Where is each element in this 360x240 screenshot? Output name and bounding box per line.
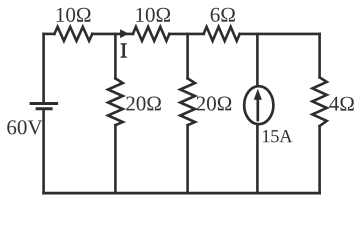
wire left vertical lower (battery - to bottom rail) xyxy=(42,110,45,193)
resistor R1 10ohm (top left) xyxy=(54,27,92,41)
wire between R1 and R2 (carries current arrow) xyxy=(92,33,133,36)
label 60V battery xyxy=(7,120,42,134)
current source I1 ellipse xyxy=(244,86,273,124)
battery V1 long plate (+) xyxy=(30,102,58,105)
wire bottom rail xyxy=(44,192,320,195)
label 10ohm R2 xyxy=(136,8,170,22)
current source arrow head xyxy=(254,89,262,100)
label 15A source xyxy=(263,130,292,142)
wire top-left segment xyxy=(44,33,55,36)
label current I xyxy=(121,44,126,58)
wire source branch top stub xyxy=(256,34,259,86)
label 10ohm R1 xyxy=(57,8,91,22)
resistor R3 6ohm (top right) xyxy=(204,27,240,41)
wire branch2 top stub xyxy=(186,34,189,79)
wire branch1 top stub xyxy=(114,34,117,79)
current arrow head on top wire (label I) xyxy=(120,29,129,38)
wire right vertical top stub xyxy=(318,34,321,77)
wire R3 to top-right corner xyxy=(240,33,320,36)
resistor R2 10ohm (top middle) xyxy=(133,27,170,41)
wire right vertical bottom stub xyxy=(318,126,321,193)
label 20ohm R4 xyxy=(126,96,161,110)
wire left vertical upper (to battery +) xyxy=(42,34,45,102)
resistor R5 20ohm (vertical) xyxy=(180,78,195,125)
label 4ohm R6 xyxy=(329,97,354,111)
resistor R6 4ohm (vertical) xyxy=(312,77,326,126)
label 6ohm R3 xyxy=(211,8,235,22)
battery V1 short plate (-) xyxy=(36,107,53,110)
label 20ohm R5 xyxy=(197,96,232,110)
wire branch2 bottom stub xyxy=(186,125,189,193)
wire branch1 bottom stub xyxy=(114,125,117,193)
resistor R4 20ohm (vertical) xyxy=(108,78,123,125)
wire source branch bottom stub xyxy=(256,124,259,193)
current source arrow shaft xyxy=(256,98,259,122)
wire between R2 and R3 xyxy=(169,33,203,36)
